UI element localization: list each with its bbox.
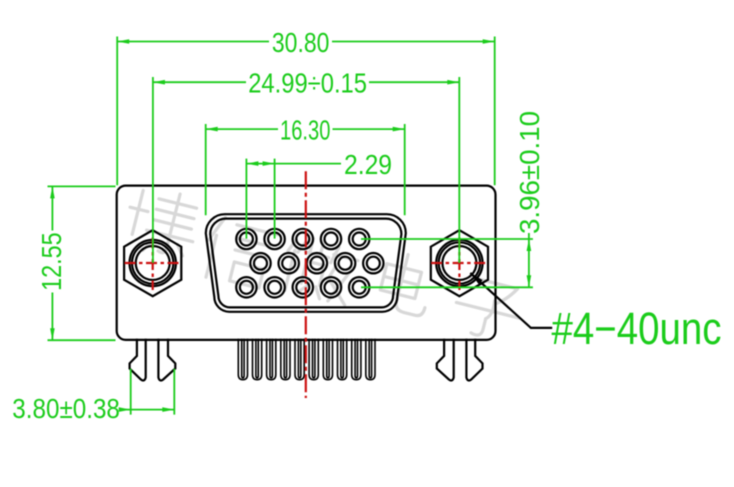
vertical centerline of connector (305, 171, 307, 398)
socket hole 5 (row 1) (349, 229, 369, 249)
svg-text:3.80±0.38: 3.80±0.38 (12, 393, 120, 424)
dimension 3.80 arrowheads (119, 407, 175, 412)
socket hole 2 (row 1) (264, 229, 284, 249)
svg-text:12.55: 12.55 (36, 232, 67, 291)
dimension 12.55 lines (48, 186, 116, 340)
svg-text:24.99÷0.15: 24.99÷0.15 (248, 67, 367, 98)
left boardlock prong 1 (130, 339, 146, 381)
solder pin 1 (238, 339, 247, 380)
dimension text 3.96±0.10 (vertical) (514, 111, 545, 234)
leader line to #4-40unc callout (470, 273, 552, 328)
solder pin 8 (338, 339, 347, 380)
dimension 2.29 arrowheads (246, 161, 274, 166)
dimension 30.80 lines (117, 37, 495, 186)
watermark character 3 (279, 233, 361, 306)
svg-text:16.30: 16.30 (280, 114, 330, 145)
solder pin 3 (267, 339, 276, 380)
right boardlock prong 3 (437, 339, 454, 381)
dimension text 12.55 (vertical) (36, 232, 67, 291)
dimension 2.29 lines (246, 159, 341, 239)
dimension 12.55 arrowheads (50, 186, 55, 340)
svg-text:#4−40unc: #4−40unc (552, 303, 722, 354)
D-shell opening inner outline (210, 219, 401, 308)
right nut horizontal centerline (431, 262, 487, 264)
svg-text:2.29: 2.29 (344, 149, 392, 180)
socket hole 12 (row 3) (264, 277, 284, 297)
solder pin 9 (352, 339, 361, 380)
dimension 3.96 lines (361, 233, 533, 287)
leader arrowhead (470, 273, 482, 285)
D-shell opening outer outline (206, 214, 406, 312)
svg-text:30.80: 30.80 (272, 27, 330, 58)
socket hole 6 (row 2) (250, 253, 270, 273)
solder pin 4 (281, 339, 290, 380)
watermark character 5 (450, 275, 526, 344)
socket hole 15 (row 3) (349, 277, 369, 297)
left boardlock prong 2 (158, 339, 175, 381)
dimension 30.80 arrowheads (117, 39, 495, 44)
connector body outline (117, 186, 496, 340)
right boardlock prong 4 (466, 339, 482, 381)
socket hole 7 (row 2) (279, 253, 299, 273)
svg-text:3.96±0.10: 3.96±0.10 (514, 111, 545, 234)
left nut horizontal centerline (125, 262, 181, 264)
solder pin 7 (323, 339, 332, 380)
dimension 24.99 lines (153, 77, 459, 263)
solder pin 6 (309, 339, 318, 380)
socket hole 3 (row 1) (293, 229, 313, 249)
socket hole 1 (row 1) (236, 229, 256, 249)
socket hole 13 (row 3) (293, 277, 313, 297)
dimension 16.30 lines (206, 124, 405, 215)
solder pin 5 (295, 339, 304, 380)
socket hole 14 (row 3) (321, 277, 341, 297)
socket hole 11 (row 3) (236, 277, 256, 297)
dimension 16.30 arrowheads (206, 127, 405, 132)
left hex jack-screw nut #4-40unc (124, 230, 181, 296)
watermark character 4 (376, 250, 436, 317)
dimension 3.80 lines (121, 369, 175, 415)
watermark character 1 (121, 183, 203, 262)
socket hole 8 (row 2) (307, 253, 327, 273)
dimension 24.99 arrowheads (153, 80, 459, 85)
socket hole 9 (row 2) (335, 253, 355, 273)
solder pin 10 (366, 339, 375, 380)
right hex jack-screw nut #4-40unc (431, 230, 488, 296)
socket hole 10 (row 2) (363, 253, 383, 273)
right nut vertical centerline (458, 238, 460, 291)
solder pin 2 (253, 339, 262, 380)
watermark character 2 (200, 215, 278, 291)
socket hole 4 (row 1) (321, 229, 341, 249)
left nut vertical centerline (152, 238, 154, 291)
dimension 3.96 arrowheads (527, 239, 532, 287)
